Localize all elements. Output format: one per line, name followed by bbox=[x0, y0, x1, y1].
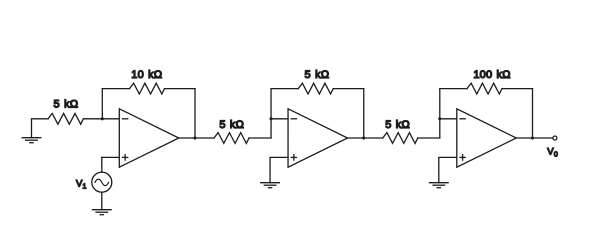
svg-text:5 kΩ: 5 kΩ bbox=[54, 99, 79, 111]
svg-text:V1: V1 bbox=[76, 178, 87, 190]
svg-text:V0: V0 bbox=[547, 146, 558, 158]
svg-text:10 kΩ: 10 kΩ bbox=[131, 69, 162, 81]
svg-text:5 kΩ: 5 kΩ bbox=[385, 119, 410, 131]
svg-text:5 kΩ: 5 kΩ bbox=[305, 69, 330, 81]
svg-text:5 kΩ: 5 kΩ bbox=[219, 119, 244, 131]
svg-text:100 kΩ: 100 kΩ bbox=[473, 69, 510, 81]
